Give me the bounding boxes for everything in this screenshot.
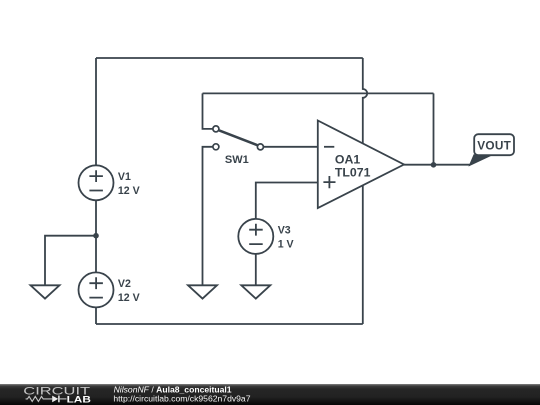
op-amp non-inverting input mark <box>323 176 335 188</box>
op-amp inverting input mark <box>324 146 334 148</box>
wire SW1 common to inverting input <box>263 146 318 148</box>
op-amp OA1 body <box>318 121 404 209</box>
switch SW1 common terminal <box>257 144 263 150</box>
wire midpoint to ground <box>45 236 96 286</box>
wire op-amp output <box>404 164 470 166</box>
logo diode <box>52 396 58 403</box>
wire bottom rail (V2- to op-amp V- pin) <box>96 323 363 325</box>
ground (SW1 lower throw) <box>188 285 217 298</box>
VOUT flag pointer <box>469 155 492 166</box>
wire op-amp V- supply drop <box>362 184 364 324</box>
wire feedback vertical <box>433 93 435 164</box>
voltage source V1 <box>79 165 114 200</box>
svg-text:http://circuitlab.com/ck9562n7: http://circuitlab.com/ck9562n7dv9a7 <box>113 394 250 404</box>
wire V3+ to non-inverting input <box>256 183 318 219</box>
ground (V3) <box>241 285 270 298</box>
switch SW1 top throw terminal <box>213 126 219 132</box>
wire SW1 top throw stub <box>203 93 213 128</box>
wire V3- to ground <box>255 254 257 285</box>
wire V2 bottom lead <box>95 307 97 324</box>
VOUT flag box <box>474 134 514 155</box>
wire V1- to V2+ link <box>95 200 97 272</box>
svg-text:LAB: LAB <box>67 395 91 405</box>
ground (mid supply) <box>31 285 60 298</box>
wire SW1 bottom throw to ground <box>203 147 213 285</box>
wire top rail (V1+ to op-amp V+ pin) <box>96 57 363 59</box>
switch SW1 bottom throw terminal <box>213 144 219 150</box>
footer bar <box>0 384 540 405</box>
voltage source V3 <box>238 219 273 254</box>
junction dot (output/feedback) <box>431 162 437 168</box>
wire V1 top lead <box>95 58 97 165</box>
wire feedback horizontal (output to SW1 throw) <box>203 92 434 94</box>
logo resistor zigzag <box>26 396 52 401</box>
voltage source V2 <box>79 272 114 307</box>
switch SW1 blade <box>219 130 257 145</box>
wire op-amp V+ supply drop with hop over feedback <box>363 58 367 145</box>
junction dot (V1/V2 midpoint) <box>93 233 99 239</box>
